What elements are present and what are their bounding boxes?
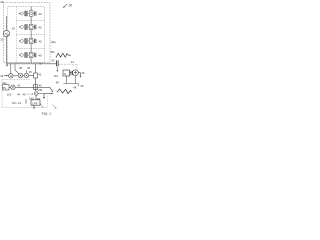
wire r1: [28, 13, 29, 15]
svg-text:34: 34: [0, 74, 4, 78]
resistor 48 zigzag2: [57, 89, 72, 94]
bus dashed continuation: [59, 64, 77, 70]
dashed divider 2: [17, 34, 45, 36]
svg-text:42: 42: [51, 59, 55, 63]
node plus r4: [19, 54, 20, 55]
cap down stub: [56, 67, 58, 71]
wire r1b: [33, 13, 35, 15]
wire to mixer E: [9, 86, 11, 88]
wire from bus to mixer A: [10, 64, 12, 74]
dashed top edge of bottom box: [2, 79, 30, 81]
stub from bus down: [15, 64, 19, 74]
svg-text:102: 102: [2, 81, 7, 85]
svg-text:48: 48: [73, 85, 76, 89]
bars element: [71, 71, 72, 76]
row 4 cell: [19, 49, 36, 58]
AC source 32: [3, 30, 9, 36]
stub up r2: [30, 21, 32, 25]
row 1 cell: [19, 7, 36, 17]
svg-text:35: 35: [29, 70, 33, 74]
leader dash: [27, 93, 29, 95]
dashed bottom edge of bottom box: [2, 106, 48, 108]
svg-text:46: 46: [81, 71, 85, 75]
leader arrow b: [53, 105, 56, 109]
box2 r3: [29, 38, 33, 43]
box2 r4: [29, 52, 33, 57]
resistor 44 zigzag: [56, 53, 71, 57]
svg-text:FIG. 1: FIG. 1: [42, 112, 51, 116]
stub up r1: [30, 7, 32, 11]
svg-text:46: 46: [22, 92, 26, 96]
bottom bus wire: [7, 63, 57, 65]
dashed box 36 (outer enclosure): [4, 3, 51, 63]
vertical through center box: [35, 64, 37, 91]
hatched box r1: [25, 11, 28, 16]
ground below LPF: [33, 105, 35, 109]
svg-text:32: 32: [0, 37, 4, 41]
PLL box: [3, 85, 9, 90]
svg-text:42: 42: [38, 73, 42, 77]
stub up r3: [30, 35, 32, 39]
svg-text:100: 100: [7, 93, 12, 97]
inter-row vertical 2: [30, 30, 32, 35]
box2 r2: [29, 24, 33, 29]
dashed divider 3: [17, 48, 45, 50]
wire to right arrow: [44, 93, 52, 95]
oscillator circle r2: [20, 26, 23, 29]
mixer C: [18, 73, 23, 78]
oscillator circle r3: [20, 40, 23, 43]
mixer E: [11, 85, 15, 89]
oscillator circle r4: [20, 54, 23, 57]
svg-text:30: 30: [12, 26, 16, 30]
svg-text:36: 36: [0, 0, 4, 4]
wire right of summer: [78, 73, 80, 77]
summer circle: [73, 70, 79, 76]
dashed right edge of bottom box: [47, 96, 49, 108]
svg-text:40: 40: [38, 12, 42, 16]
wire left vertical: [6, 37, 8, 64]
svg-text:40: 40: [38, 39, 42, 43]
down arrow at left: [6, 64, 8, 65]
wire r3: [28, 40, 29, 42]
wire chain1 a: [7, 75, 19, 77]
G box: [63, 70, 70, 76]
wire r3b: [33, 40, 35, 42]
svg-text:38: 38: [19, 66, 23, 70]
capacitor bars r1: [35, 11, 36, 15]
svg-text:44: 44: [71, 60, 75, 64]
wire chain1 c: [29, 75, 34, 77]
row 3 cell: [19, 35, 36, 44]
wire r2b: [33, 26, 35, 28]
return stubs: [66, 76, 75, 84]
wire VCO to LPF: [35, 96, 37, 100]
center box on chain1: [34, 73, 38, 78]
wire chain2: [15, 86, 44, 88]
wire r4: [28, 54, 29, 56]
oscillator VCO circle: [34, 92, 38, 96]
svg-text:PL: PL: [3, 86, 7, 90]
wire r4b: [33, 54, 35, 56]
series capacitor on bus: [57, 60, 59, 66]
tick mark: [25, 99, 27, 103]
svg-text:+1: +1: [30, 92, 34, 96]
return wire: [64, 84, 79, 87]
inter-row vertical 1: [30, 16, 32, 20]
dashed left edge of bottom box: [1, 80, 3, 108]
svg-text:41: 41: [17, 83, 21, 87]
svg-text:110: 110: [54, 74, 59, 78]
inter-row vertical 4: [30, 58, 32, 63]
svg-text:36: 36: [27, 66, 31, 70]
capacitor bars r3: [35, 39, 36, 43]
svg-text:40: 40: [38, 53, 42, 57]
mixer D stub: [26, 70, 28, 73]
svg-text:40: 40: [39, 83, 43, 87]
hatched box r4: [25, 53, 28, 58]
svg-text:40: 40: [38, 25, 42, 29]
leader arrow a: [41, 104, 45, 108]
svg-text:40b: 40b: [50, 50, 55, 54]
svg-text:50: 50: [81, 84, 84, 88]
sub-box left dashed edge: [16, 7, 18, 63]
mixer A: [9, 74, 13, 78]
stub up r4: [30, 49, 32, 53]
oscillator circle r1: [20, 12, 23, 15]
node plus r1: [19, 13, 20, 14]
bus arrowhead: [40, 63, 42, 65]
capacitor bars r2: [35, 25, 36, 29]
node plus r2: [19, 26, 20, 27]
inter-row vertical 3: [30, 44, 32, 49]
slant tick: [57, 90, 59, 92]
small box on chain2: [34, 85, 38, 90]
AC source 32 wire top: [6, 16, 8, 30]
box2 r1: [29, 11, 33, 16]
capacitor bars r4: [35, 53, 36, 57]
svg-text:14: 14: [18, 101, 22, 105]
wire r2: [28, 26, 29, 28]
wire right of VCO: [38, 94, 44, 98]
dashed inner box: [8, 7, 45, 63]
row 2 cell: [19, 21, 36, 30]
arrow to label 10: [63, 4, 67, 7]
mixer D: [24, 73, 29, 78]
node plus r3: [19, 40, 20, 41]
svg-text:44: 44: [17, 93, 21, 97]
dashed divider 1: [17, 20, 45, 22]
svg-text:10: 10: [68, 3, 72, 7]
svg-text:48: 48: [56, 81, 59, 85]
chain2 right arrow: [45, 87, 53, 91]
svg-text:40a: 40a: [51, 40, 56, 44]
svg-text:LPF: LPF: [32, 101, 38, 105]
svg-text:138: 138: [37, 88, 42, 92]
LPF box: [31, 100, 40, 105]
wire chain1 b: [23, 75, 25, 77]
hatched box r2: [25, 25, 28, 30]
wire G to summer: [70, 72, 73, 74]
svg-text:Rin: Rin: [12, 101, 17, 105]
hatched box r3: [25, 39, 28, 44]
